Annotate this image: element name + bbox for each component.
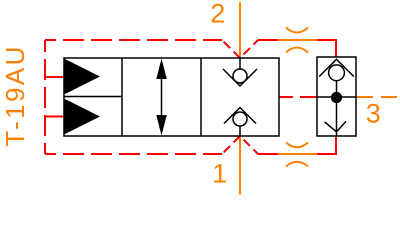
svg-text:2: 2 (210, 0, 225, 29)
svg-text:1: 1 (212, 159, 227, 189)
svg-text:3: 3 (366, 99, 381, 129)
svg-text:T-19AU: T-19AU (0, 44, 30, 147)
